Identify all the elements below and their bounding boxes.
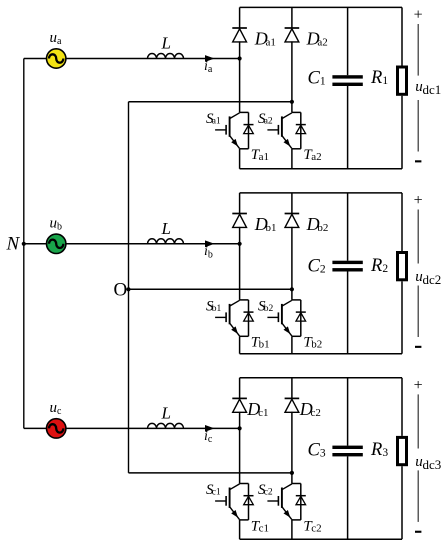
diode Da2 [285,28,300,42]
output voltage annotation line (lower) [417,470,419,522]
diode Db1 [232,214,247,228]
wire: resistor R3 lower lead [401,466,403,539]
svg-text:+: + [414,7,423,24]
inductor L (phase c) [148,423,184,428]
transistor Tb2 IGBT body [267,300,300,336]
wire: leg2 upper (top rail to Dc2) [291,378,293,399]
wire: N bus to source uc [24,427,47,429]
anti-parallel diode of Tb2 [296,300,306,336]
node N junction dot [22,242,26,246]
svg-text:O: O [114,279,128,300]
node O junction dot on bus [126,287,130,291]
AC source ub [47,234,66,253]
output minus sign [415,160,421,162]
wire: capacitor C3 lower lead [347,456,349,539]
svg-text:L: L [161,34,171,53]
wire: capacitor C1 lower lead [347,86,349,169]
AC source ua [47,49,66,68]
transistor Ta1 IGBT body [215,112,248,148]
output voltage annotation line (lower) [417,100,419,152]
wire: leg1 middle (Dc1 to Tc1) [239,412,241,484]
wire: leg2 middle (Da2 to Ta2) [291,41,293,112]
wire: leg2 lower (Ta2 to bottom rail) [291,149,293,169]
svg-text:udc3: udc3 [415,454,441,472]
wire: leg1 lower (Ta1 to bottom rail) [239,149,241,169]
wire: leg1 upper (top rail to Dc1) [239,378,241,399]
output minus sign [415,346,421,348]
capacitor C2 [332,261,362,272]
input junction dot [238,242,242,246]
wire: leg2 middle (Db2 to Tb2) [291,227,293,300]
wire: leg1 lower (Tc1 to bottom rail) [239,520,241,539]
diode Dc1 [232,398,247,412]
bridge bottom rail (DC-) [240,168,402,170]
output voltage annotation line (upper) [417,394,419,448]
resistor R3 [398,437,407,464]
diode Db2 [285,214,300,228]
transistor Tb1 IGBT body [215,300,248,336]
current arrow ic [205,425,215,432]
wire: O line to leg2 (phase a) [129,101,292,103]
AC source uc [47,419,66,438]
wire: leg2 upper (top rail to Db2) [291,193,293,214]
O-line junction dot on leg2 [290,100,294,104]
wire: O line to leg2 (phase b) [129,288,292,290]
resistor R2 [398,253,407,280]
output voltage annotation line (upper) [417,24,419,76]
output minus sign [415,531,421,533]
wire: neutral bus N (vertical) [23,59,25,429]
input junction dot [238,426,242,430]
wire: source uc to bridge input [66,427,240,429]
wire: leg1 lower (Tb1 to bottom rail) [239,336,241,353]
anti-parallel diode of Tc2 [296,484,306,520]
bridge bottom rail (DC-) [240,538,402,540]
output voltage annotation line (lower) [417,286,419,338]
wire: capacitor C3 upper lead [347,378,349,446]
transistor Tc1 IGBT body [215,484,248,520]
current arrow ia [205,55,215,62]
anti-parallel diode of Ta1 [244,112,254,148]
anti-parallel diode of Tb1 [244,300,254,336]
wire: source ub to bridge input [66,243,240,245]
input junction dot [238,56,242,60]
wire: resistor R2 lower lead [401,281,403,353]
wire: leg2 lower (Tb2 to bottom rail) [291,336,293,353]
inductor L (phase b) [148,239,184,244]
wire: leg2 lower (Tc2 to bottom rail) [291,520,293,539]
svg-text:udc1: udc1 [415,79,441,97]
wire: O line to leg2 (phase c) [129,472,292,474]
transistor Tc2 IGBT body [267,484,300,520]
svg-text:udc2: udc2 [415,269,441,287]
inductor L (phase a) [148,54,184,59]
wire: leg1 middle (Da1 to Ta1) [239,41,241,112]
svg-text:+: + [414,377,423,394]
wire: leg2 middle (Dc2 to Tc2) [291,412,293,484]
wire: capacitor C2 lower lead [347,272,349,354]
diode Dc2 [285,398,300,412]
wire: leg1 upper (top rail to Db1) [239,193,241,214]
wire: resistor R2 upper lead [401,193,403,251]
current arrow ib [205,240,215,247]
wire: leg2 upper (top rail to Da2) [291,7,293,28]
diode Da1 [232,28,247,42]
resistor R1 [398,67,407,94]
bridge top rail (DC+) [240,6,402,8]
anti-parallel diode of Ta2 [296,112,306,148]
wire: source ua to bridge input [66,58,240,60]
O-line junction dot on leg2 [290,471,294,475]
svg-text:N: N [6,234,21,255]
wire: resistor R3 upper lead [401,378,403,436]
O-line junction dot on leg2 [290,287,294,291]
wire: N bus to source ub [24,243,47,245]
transistor Ta2 IGBT body [267,112,300,148]
svg-text:+: + [414,192,423,209]
svg-text:L: L [161,219,171,238]
anti-parallel diode of Tc1 [244,484,254,520]
wire: resistor R1 lower lead [401,96,403,169]
capacitor C3 [332,446,362,457]
wire: capacitor C2 upper lead [347,193,349,261]
wire: leg1 middle (Db1 to Tb1) [239,227,241,300]
wire: common bus O (vertical) [128,102,130,473]
wire: leg1 upper (top rail to Da1) [239,7,241,28]
wire: resistor R1 upper lead [401,7,403,65]
bridge bottom rail (DC-) [240,353,402,355]
bridge top rail (DC+) [240,192,402,194]
svg-text:L: L [161,403,171,422]
output voltage annotation line (upper) [417,210,419,264]
wire: capacitor C1 upper lead [347,7,349,75]
bridge top rail (DC+) [240,377,402,379]
capacitor C1 [332,75,362,86]
wire: N bus to source ua [24,58,47,60]
